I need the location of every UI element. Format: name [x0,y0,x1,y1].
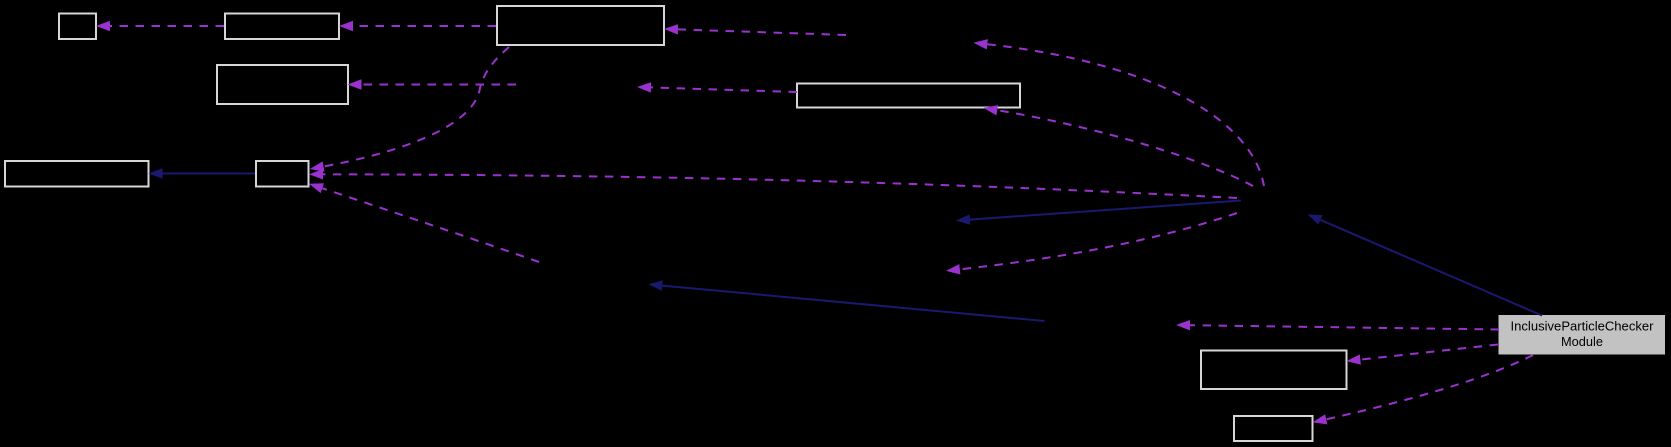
svg-text:Module: Module [1561,334,1603,349]
edge B3 -> B7 (dashed S-curve) [324,47,509,167]
edge main -> B8 (dashed) [1360,345,1498,360]
edge B7 -> B6 (blue) [163,173,256,175]
edge hiddenE -> hiddenD (blue) [662,286,1044,321]
main node: InclusiveParticleChecker Module [1499,316,1665,355]
edge hub -> hiddenA (dashed curve) [987,44,1264,186]
edge B5 -> hiddenG (dashed) [651,87,797,92]
edge hub -> hiddenB (blue) [970,201,1241,220]
node box B1 (top-left small) [59,14,96,40]
edge main -> hiddenE (dashed) [1190,325,1499,329]
node box B6 (left) [5,161,149,187]
node box B2 [225,14,339,40]
edge hiddenG -> B4 (dashed) [362,84,517,86]
node box B3 (two-line, top middle) [497,6,664,45]
edge main -> hub (blue) [1321,220,1543,316]
node box B8 (bottom right) [1201,351,1347,390]
node box B5 (wide) [797,84,1020,108]
edge B2 -> B1 (dashed) [110,25,224,27]
edge hub -> B5 (dashed curve) [997,110,1253,186]
svg-text:InclusiveParticleChecker: InclusiveParticleChecker [1511,319,1655,334]
edge hiddenA -> B3 (dashed) [678,29,846,35]
edge hub -> B7 (dashed) [323,174,1237,198]
node box B4 (two-line) [217,65,348,104]
edge hub -> hiddenF (dashed curve) [960,213,1237,269]
node box B9 (bottom small) [1234,416,1313,441]
edge B3 -> B2 (dashed) [353,25,496,27]
edge hiddenD -> B7 (dashed curve) [322,188,539,262]
node box B7 (small) [256,161,309,187]
edge main -> B9 (dashed curve) [1326,355,1533,419]
